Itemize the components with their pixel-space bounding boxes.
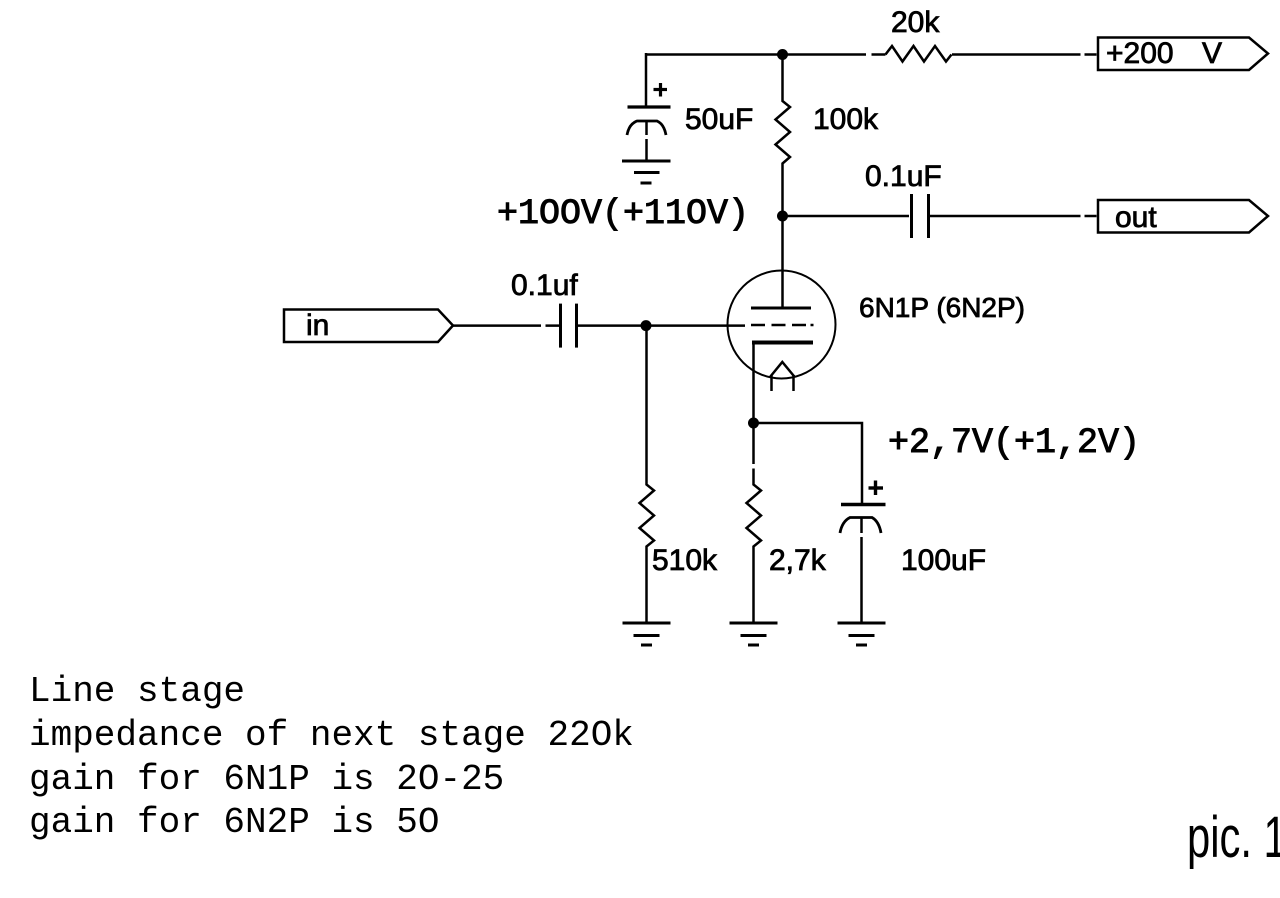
tube heater (770, 362, 795, 391)
resistor 20k (886, 46, 952, 62)
ground under 2,7k (730, 623, 778, 645)
svg-text:510k: 510k (652, 544, 718, 577)
wire cathode node to 100uF (754, 423, 863, 503)
wire input cap to node (578, 324, 646, 327)
node top rail (777, 49, 788, 60)
wire anode lead (781, 216, 784, 307)
tube 6N1P envelope (728, 271, 836, 379)
wire 50uF top lead (645, 53, 648, 107)
svg-text:out: out (1115, 201, 1157, 234)
capacitor 50uF (627, 107, 671, 161)
wire cathode lead (752, 343, 755, 423)
plus sign 100uF (869, 481, 884, 496)
svg-text:gain for 6N2P is 5O: gain for 6N2P is 5O (29, 802, 439, 843)
wire top rail right segment (952, 53, 1097, 56)
capacitor 100uF (840, 505, 886, 623)
svg-text:+1OOV(+11OV): +1OOV(+11OV) (497, 194, 749, 234)
capacitor 0.1uF out (912, 194, 929, 238)
svg-text:+2,7V(+1,2V): +2,7V(+1,2V) (888, 423, 1140, 463)
tube cathode (752, 341, 813, 345)
wire node to grid (646, 324, 745, 327)
wire input tag to cap (453, 324, 559, 327)
node out (777, 211, 788, 222)
svg-text:20k: 20k (891, 6, 940, 39)
wire top rail left segment b (872, 53, 886, 56)
wire out right segment (930, 215, 1097, 218)
tag in (284, 309, 453, 342)
svg-text:V: V (1202, 37, 1222, 70)
node cathode (748, 418, 759, 429)
capacitor 0.1uf input (561, 304, 577, 348)
svg-text:100uF: 100uF (901, 544, 986, 577)
plus sign 50uF (654, 83, 668, 97)
ground under 510k (623, 623, 671, 645)
svg-text:in: in (306, 309, 329, 342)
resistor 2,7k (747, 423, 762, 622)
resistor 510k (640, 326, 655, 622)
svg-text:Line stage: Line stage (29, 671, 245, 712)
tube grid dashed (751, 324, 814, 327)
tag +200 V (1098, 37, 1268, 70)
ground under 100uF (838, 623, 886, 645)
node input (641, 320, 652, 331)
svg-text:gain for 6N1P is 2O-25: gain for 6N1P is 2O-25 (29, 759, 504, 800)
svg-text:6N1P (6N2P): 6N1P (6N2P) (859, 292, 1025, 323)
svg-text:impedance of next stage 22Ok: impedance of next stage 22Ok (29, 715, 634, 756)
svg-text:0.1uF: 0.1uF (865, 160, 942, 193)
wire top rail left segment (646, 53, 866, 56)
ground under 50uF (622, 161, 671, 183)
wire out left segment (782, 215, 909, 218)
svg-text:50uF: 50uF (685, 103, 753, 136)
svg-text:2,7k: 2,7k (769, 544, 827, 577)
svg-text:0.1uf: 0.1uf (511, 269, 578, 302)
svg-text:+200: +200 (1106, 37, 1174, 70)
svg-text:pic. 1: pic. 1 (1187, 804, 1280, 869)
tube plate (751, 307, 811, 310)
tag out (1098, 200, 1268, 234)
resistor 100k (776, 55, 791, 217)
svg-text:100k: 100k (813, 103, 879, 136)
